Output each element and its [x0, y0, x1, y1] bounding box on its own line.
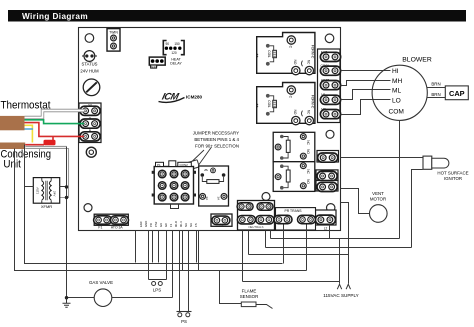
svg-text:PS: PS: [181, 319, 187, 324]
svg-text:LO: LO: [392, 97, 401, 104]
svg-text:GV: GV: [159, 223, 163, 227]
svg-text:GC: GC: [164, 223, 168, 227]
svg-text:FS: FS: [220, 223, 224, 227]
svg-text:Unit: Unit: [3, 158, 21, 170]
svg-text:115VAC SUPPLY: 115VAC SUPPLY: [323, 293, 359, 298]
svg-text:Wiring Diagram: Wiring Diagram: [22, 12, 88, 21]
svg-text:CON2: CON2: [180, 163, 189, 167]
svg-text:CAP: CAP: [449, 89, 465, 98]
svg-text:BLOWER: BLOWER: [402, 57, 432, 64]
svg-text:90-4: 90-4: [179, 221, 183, 227]
svg-text:ML: ML: [392, 87, 401, 94]
svg-text:NC: NC: [307, 60, 311, 65]
svg-text:JUMPER NECESSARY: JUMPER NECESSARY: [193, 131, 239, 136]
svg-text:NU: NU: [184, 223, 188, 227]
svg-text:FOR 90+ SELECTION: FOR 90+ SELECTION: [195, 144, 239, 149]
svg-text:XFMR: XFMR: [41, 204, 52, 209]
svg-text:SENSOR: SENSOR: [240, 294, 259, 299]
svg-text:ICM280: ICM280: [186, 95, 203, 100]
svg-text:FS: FS: [194, 223, 198, 227]
svg-text:F1: F1: [169, 223, 173, 227]
svg-text:NC: NC: [306, 140, 310, 145]
svg-text:3A: 3A: [205, 197, 209, 201]
svg-text:L2: L2: [324, 227, 328, 231]
svg-text:HI: HI: [392, 68, 399, 75]
svg-text:GND: GND: [144, 221, 148, 227]
svg-text:STATUS: STATUS: [82, 62, 98, 67]
svg-text:MOTOR: MOTOR: [370, 197, 386, 202]
svg-text:90: 90: [166, 42, 170, 46]
svg-text:FLAME: FLAME: [242, 289, 257, 294]
svg-text:COM: COM: [389, 108, 404, 115]
svg-text:GAS VALVE: GAS VALVE: [89, 280, 113, 285]
svg-text:NEUTRALS: NEUTRALS: [249, 225, 264, 229]
svg-text:PR: PR: [149, 223, 153, 227]
svg-text:ATO 3A: ATO 3A: [111, 226, 123, 230]
svg-text:NO: NO: [293, 110, 297, 115]
svg-text:IGNITOR: IGNITOR: [444, 176, 462, 181]
svg-text:NO: NO: [293, 60, 297, 65]
svg-text:TEST: TEST: [150, 65, 158, 69]
svg-text:TWIN: TWIN: [109, 31, 118, 35]
svg-text:PR TRANS: PR TRANS: [284, 209, 302, 213]
svg-text:NO: NO: [306, 179, 310, 184]
svg-text:NC: NC: [307, 110, 311, 115]
svg-text:115V: 115V: [36, 187, 40, 194]
svg-text:NO: NO: [306, 149, 310, 154]
svg-text:NU: NU: [189, 223, 193, 227]
svg-text:24V HUM: 24V HUM: [80, 69, 99, 74]
svg-text:3A: 3A: [217, 197, 221, 201]
svg-text:MH: MH: [392, 78, 402, 85]
svg-text:BRN: BRN: [431, 92, 440, 97]
svg-text:NC: NC: [306, 169, 310, 174]
svg-text:BETWEEN PINS 1 & 4: BETWEEN PINS 1 & 4: [194, 137, 239, 142]
svg-text:COIL: COIL: [267, 50, 271, 58]
svg-text:150: 150: [174, 42, 180, 46]
svg-text:DELAY: DELAY: [170, 61, 182, 65]
svg-text:FORM-C: FORM-C: [311, 45, 315, 59]
svg-text:VENT: VENT: [372, 191, 384, 196]
svg-text:P1: P1: [157, 163, 161, 167]
svg-text:120: 120: [171, 51, 177, 55]
svg-text:BRN: BRN: [431, 82, 440, 87]
svg-text:F1: F1: [98, 226, 102, 230]
svg-text:LPS: LPS: [153, 288, 161, 293]
svg-text:HOT SURFACE: HOT SURFACE: [437, 171, 468, 176]
svg-text:PS2: PS2: [154, 221, 158, 227]
svg-text:COIL: COIL: [267, 100, 271, 108]
svg-text:24V: 24V: [53, 191, 57, 196]
svg-text:FORM-C: FORM-C: [311, 95, 315, 109]
svg-text:EAC: EAC: [139, 221, 143, 227]
svg-text:90-O: 90-O: [174, 220, 178, 227]
